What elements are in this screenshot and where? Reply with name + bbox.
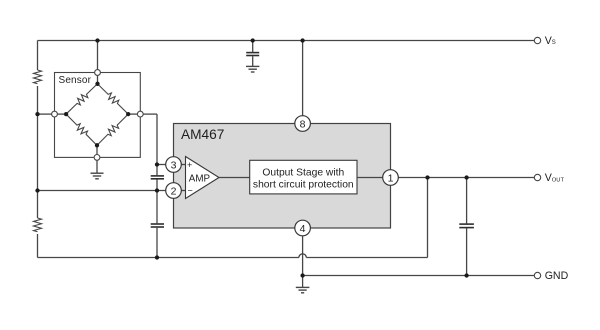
- svg-text:8: 8: [300, 118, 306, 130]
- terminal Vout: [534, 174, 540, 180]
- node: diamond top vertex: [95, 82, 99, 86]
- node: Vs / C1 tap: [251, 38, 255, 42]
- wire: bridge top node to diamond: [97, 75, 99, 83]
- ground symbol under pin 4: [296, 287, 310, 292]
- wire: output stage to pin 1: [357, 177, 383, 179]
- node: feedback line / cap column: [155, 255, 159, 259]
- node: diamond bottom vertex: [95, 143, 99, 147]
- svg-text:Output Stage with: Output Stage with: [262, 168, 344, 179]
- wire: pin 2 to amp - input: [181, 190, 185, 192]
- wire: left vertical rail middle segment: [37, 86, 39, 218]
- resistor R2 (lower left, feedback): [34, 218, 42, 232]
- wire: bridge top supply drop: [97, 41, 99, 70]
- wire: left vertical rail upper segment: [37, 41, 39, 71]
- ground symbol under sensor bridge: [91, 173, 104, 179]
- svg-text:1: 1: [388, 172, 394, 184]
- node: bridge left open circle: [52, 111, 58, 117]
- node: pin2 junction: [155, 188, 159, 192]
- wire: Vout line: [398, 177, 534, 179]
- node: GND / pin4: [300, 273, 304, 277]
- wire: amp output to output stage: [219, 177, 250, 179]
- svg-text:GND: GND: [545, 270, 569, 282]
- bridge arm top-left with resistor: [64, 81, 100, 116]
- wire: left bridge node to diamond vertex: [57, 113, 66, 115]
- wire: vertical down to pin 3 junction: [156, 114, 158, 164]
- wire: pin 3 stub: [157, 164, 166, 166]
- node: diamond right vertex: [126, 112, 130, 116]
- svg-text:+: +: [187, 160, 192, 170]
- wire: pin 4 down to ground: [302, 236, 304, 288]
- terminal Vs: [534, 37, 540, 43]
- capacitor C1 supply decoupling: [252, 41, 254, 52]
- svg-text:AMP: AMP: [189, 173, 211, 184]
- pin 2 circle: [166, 183, 182, 199]
- svg-text:3: 3: [171, 159, 177, 171]
- wire: feedback vertical riser to Vout line: [427, 178, 429, 258]
- wire: bottom bridge node to ground: [96, 160, 98, 173]
- IC AM467 body: [174, 124, 391, 229]
- wire: right diamond vertex to right bridge node: [128, 113, 137, 115]
- node: left rail / bridge left: [35, 112, 39, 116]
- node: bridge top open circle: [95, 70, 101, 76]
- capacitor C2 between pin3 and pin2 nets: [156, 165, 158, 176]
- svg-text:4: 4: [300, 223, 306, 235]
- node: Vout / C3: [464, 175, 468, 179]
- wire: pin 8 supply drop: [302, 41, 304, 116]
- node: Vs / pin8 tap: [300, 38, 304, 42]
- node: pin3 junction: [155, 162, 159, 166]
- output stage box: [250, 160, 357, 194]
- wire: right bridge node to pin 3 column: [143, 113, 157, 115]
- node: diamond left vertex: [64, 112, 68, 116]
- wire: bottom feedback line right part: [306, 257, 427, 259]
- svg-text:AM467: AM467: [181, 127, 224, 142]
- wire: pin 2 line to left rail: [38, 190, 166, 192]
- pin 3 circle: [166, 157, 182, 173]
- node: bridge right open circle: [137, 111, 143, 117]
- pin 8 circle: [295, 116, 311, 132]
- capacitor C4 between pin2 net and feedback line: [156, 191, 158, 224]
- wire: pin 3 to amp + input: [181, 164, 185, 166]
- wire: bottom diamond vertex to bottom bridge node: [96, 145, 98, 154]
- bridge arm bottom-left with resistor: [64, 112, 100, 148]
- svg-text:Sensor: Sensor: [59, 75, 92, 86]
- sensor box outline: [55, 73, 141, 158]
- pin 4 circle: [295, 220, 311, 236]
- node: Vout / feedback riser: [425, 175, 429, 179]
- pin 1 circle: [383, 170, 399, 186]
- wire: left vertical rail lower segment: [37, 234, 39, 258]
- wire: Vs supply rail (top horizontal): [38, 40, 535, 42]
- svg-text:VS: VS: [545, 35, 556, 47]
- node: bridge bottom open circle: [94, 155, 100, 161]
- node: left rail / pin2 line: [35, 188, 39, 192]
- node: Vs / bridge tap: [95, 38, 99, 42]
- terminal GND: [534, 272, 540, 278]
- wire: left bridge node stub to left rail: [38, 113, 52, 115]
- op-amp AMP triangle: [186, 157, 220, 199]
- svg-text:2: 2: [171, 185, 177, 197]
- wire: bottom feedback line left part: [38, 257, 299, 259]
- wire: GND line: [303, 275, 534, 277]
- resistor R1 (upper left, in series from Vs): [34, 70, 42, 84]
- node: GND / C3: [464, 273, 468, 277]
- capacitor C3 output: [466, 178, 468, 224]
- bridge arm top-right with resistor: [95, 81, 130, 116]
- svg-text:−: −: [188, 186, 193, 196]
- ground symbol under C1: [246, 66, 259, 72]
- bridge arm bottom-right with resistor: [95, 112, 131, 148]
- svg-text:VOUT: VOUT: [545, 172, 565, 184]
- svg-text:short circuit protection: short circuit protection: [253, 180, 354, 191]
- wire hop: feedback line jumps over pin-4 wire: [299, 254, 306, 258]
